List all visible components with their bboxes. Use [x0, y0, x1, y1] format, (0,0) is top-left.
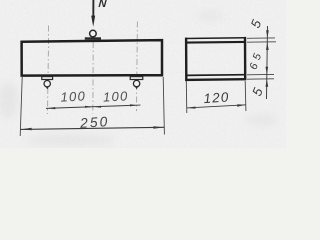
svg-text:100: 100	[103, 88, 129, 104]
svg-text:250: 250	[79, 114, 110, 131]
svg-text:120: 120	[203, 89, 230, 106]
svg-text:100: 100	[60, 88, 86, 104]
